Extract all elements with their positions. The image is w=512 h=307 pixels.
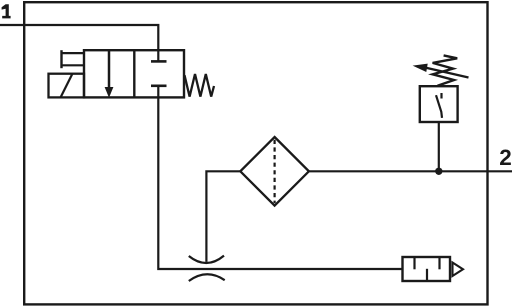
manual condensate drain (upper arc): [189, 256, 224, 263]
separator filter element (dashed): [274, 140, 276, 203]
water separator F1 (diamond): [240, 137, 309, 206]
pressure switch S1 body: [420, 86, 458, 122]
wire: valve V1 outlet down and exhaust line to silencer: [158, 97, 402, 269]
silencer U2 body: [403, 257, 451, 281]
silencer U2 outlet triangle: [453, 263, 464, 277]
valve V1 closed port (top T): [151, 50, 167, 61]
manual condensate drain (lower arc): [189, 274, 225, 281]
valve V1 body (3/2-way): [84, 50, 184, 97]
wire: separator inlet and drain line down: [206, 171, 240, 262]
adjustment spring of S1: [433, 55, 458, 85]
pressure switch S1 contact: [436, 93, 442, 118]
valve V1 closed port (bottom T): [151, 86, 167, 98]
manual override of valve V1: [62, 50, 85, 68]
port 1 label: [2, 4, 11, 18]
wire: supply line from port 1 to valve V1: [0, 25, 158, 51]
svg-text:2: 2: [499, 145, 512, 170]
silencer U2 internal baffles: [415, 257, 440, 281]
junction node: [435, 168, 442, 175]
valve V1 flow arrow: [105, 50, 114, 98]
return spring of valve V1: [185, 74, 215, 97]
wire: pressure switch sensing line: [438, 122, 440, 171]
adjustment arrow of S1: [413, 64, 469, 78]
wire: separator outlet to port 2: [309, 170, 512, 172]
solenoid coil of valve V1: [49, 74, 85, 98]
